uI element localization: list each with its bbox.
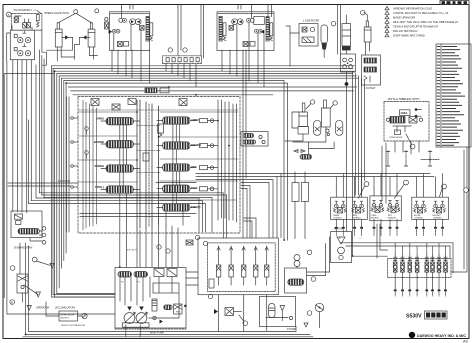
- title S530V: [406, 311, 447, 320]
- block internal crossing wires: [79, 100, 239, 230]
- svg-text:SELECTOR PRESS SW: SELECTOR PRESS SW: [61, 325, 86, 327]
- spool OPT: [157, 164, 197, 171]
- warning note 6: [385, 29, 417, 33]
- swing reducing valves: [186, 235, 208, 245]
- svg-text:TEXW A MOTOR UPTM TEXHWH AT: TEXW A MOTOR UPTM TEXHWH AT: [393, 25, 439, 29]
- svg-text:1 OUTLET: 1 OUTLET: [364, 87, 376, 90]
- svg-text:OPERATOR: OPERATOR: [36, 307, 49, 310]
- lever group 1: [331, 197, 368, 219]
- svg-text:OPT: OPT: [191, 165, 197, 169]
- travel crossover lines: [80, 214, 196, 254]
- dozer cylinder: [364, 13, 371, 55]
- svg-text:PAN AD TEXTWH D: PAN AD TEXTWH D: [393, 29, 417, 33]
- svg-text:PEDAL(L): PEDAL(L): [371, 217, 379, 220]
- main pump block: [115, 268, 186, 329]
- solenoid valve SOL6: [431, 255, 435, 278]
- junction manifold rects: [292, 172, 309, 239]
- check valve block: [286, 20, 319, 67]
- svg-text:WORK MODE: WORK MODE: [60, 314, 75, 316]
- warning note 4: [385, 20, 459, 24]
- pilot elbow bundle to manifold: [29, 60, 227, 238]
- drain port dot: [345, 72, 349, 86]
- pump P2: [136, 307, 147, 324]
- straight travel valve box: [285, 250, 316, 293]
- travel block drop wires: [112, 50, 264, 87]
- svg-text:TH/BH: TH/BH: [333, 215, 340, 217]
- solenoid bank box: [388, 259, 452, 278]
- warning note 7: [385, 33, 425, 37]
- svg-text:S530V: S530V: [406, 314, 422, 320]
- svg-text:ARROWS INFORMATION CLVD: ARROWS INFORMATION CLVD: [393, 7, 432, 11]
- gauge with needle bottom left: [32, 257, 54, 268]
- svg-text:BOOM: BOOM: [414, 215, 420, 217]
- travel motor block L: [105, 5, 153, 51]
- svg-text:VIA STRATEGY - 1: VIA STRATEGY - 1: [14, 8, 37, 12]
- solenoid valve SOL4: [415, 255, 419, 278]
- svg-text:MADE UPWH DIR: MADE UPWH DIR: [393, 16, 415, 20]
- right margin wire: [451, 147, 468, 272]
- svg-text:DAEWOO HEAVY IND. & M/C: DAEWOO HEAVY IND. & M/C: [417, 334, 466, 338]
- svg-text:P PUMP: P PUMP: [287, 328, 297, 331]
- svg-text:OPEN MODE: OPEN MODE: [389, 137, 403, 139]
- solenoid valve SOL5: [425, 255, 429, 278]
- RCV outline step (right side): [7, 30, 47, 65]
- cylinder piping: [47, 37, 98, 61]
- balloon lever1: [364, 182, 369, 187]
- pump P1: [124, 307, 135, 324]
- spool ARM1: [96, 117, 139, 125]
- spool TRVL: [95, 185, 140, 193]
- warning note 2: [385, 11, 449, 15]
- lever group 3: [412, 197, 449, 219]
- svg-text:1 LINE FILTER: 1 LINE FILTER: [303, 20, 319, 23]
- svg-text:OPERA VALVE PATH: OPERA VALVE PATH: [44, 11, 69, 15]
- relief unit 4: [254, 246, 258, 285]
- svg-text:90 BRAKE VTRW: 90 BRAKE VTRW: [14, 247, 33, 250]
- svg-text:BUCKET: BUCKET: [433, 215, 442, 217]
- bypass valve box: [341, 54, 356, 72]
- balloon lever3: [442, 184, 447, 189]
- option box stubs: [382, 141, 419, 203]
- balloon 9: [331, 21, 336, 26]
- travel pilot valve small: [214, 308, 248, 326]
- center gallery lines: [120, 100, 183, 230]
- warning note 1: [385, 6, 432, 10]
- travel motor block R: [217, 5, 274, 51]
- remote control valve RCV body: [10, 25, 34, 60]
- svg-text:T900: T900: [191, 186, 198, 190]
- balloon A: [6, 12, 11, 17]
- relief unit 2: [229, 246, 233, 285]
- pump yoke: [115, 323, 186, 329]
- balloon: [361, 10, 366, 15]
- svg-text:LEVER(L): LEVER(L): [353, 218, 361, 220]
- relief manifold block: [198, 238, 278, 295]
- wire elbows left of bundle: [52, 66, 116, 297]
- solenoid valve SOL3: [408, 255, 412, 278]
- option box: [384, 97, 429, 149]
- svg-text:PVD: PVD: [176, 312, 181, 314]
- maker logo: [409, 332, 467, 338]
- svg-text:SWG: SWG: [372, 215, 377, 217]
- relief unit 3: [242, 246, 246, 285]
- solenoid valve SOL7: [437, 255, 441, 278]
- cooler fan motor: [331, 228, 352, 263]
- solenoid valve SOL2: [401, 255, 405, 278]
- svg-text:ARM1: ARM1: [96, 117, 104, 121]
- center joint connector strip: [163, 48, 202, 64]
- gear pump: [307, 237, 330, 328]
- svg-text:WHL DIST THE 10mm DIRG UH THE: WHL DIST THE 10mm DIRG UH THE OBETWHHE A…: [393, 20, 459, 24]
- svg-text:SWITCH: SWITCH: [60, 318, 69, 320]
- svg-text:SWING: SWING: [95, 164, 104, 168]
- work mode switch box: [46, 302, 87, 327]
- svg-text:MAIN PUMP: MAIN PUMP: [150, 332, 165, 335]
- right bus drop wires: [353, 71, 388, 258]
- title number strip top right: [440, 1, 469, 5]
- aux valve mini block: [241, 132, 268, 147]
- svg-text:A: A: [8, 13, 10, 17]
- svg-text:100A: 100A: [400, 111, 408, 115]
- svg-text:(ACCUMULATOR): (ACCUMULATOR): [55, 307, 75, 310]
- spool BOOM1: [157, 142, 202, 149]
- parts list table: [436, 44, 471, 147]
- svg-text:TRV(R): TRV(R): [191, 205, 200, 209]
- return filter column: [342, 15, 351, 54]
- svg-text:ROTA & NIBBLER OPTN: ROTA & NIBBLER OPTN: [388, 97, 419, 101]
- balloon lever2: [404, 180, 409, 185]
- accumulator / shutoff group: [10, 266, 75, 310]
- balloon above cylinders: [58, 10, 91, 23]
- svg-text:CONTRL MAX DIST AT MECH MECH T: CONTRL MAX DIST AT MECH MECH TA + 10: [393, 11, 449, 15]
- pilot shuttle box (dashed): [11, 14, 42, 31]
- relief unit 1: [216, 246, 220, 285]
- right collector wires: [277, 174, 453, 273]
- warning note 3: [385, 15, 415, 19]
- block left port stubs: [8, 97, 78, 232]
- solenoid valve SOL8: [444, 255, 448, 278]
- svg-text:B: B: [11, 300, 13, 304]
- travel motor long drops: [243, 50, 246, 238]
- svg-text:BOOM2: BOOM2: [94, 140, 105, 144]
- check valve right (filled): [80, 35, 90, 39]
- accumulator charge cluster: [285, 86, 347, 231]
- regulators and internal piping: [120, 277, 187, 335]
- brake valve block: [11, 211, 46, 250]
- wire bundle horizontal: [52, 66, 359, 240]
- lever group 2: [370, 196, 401, 221]
- solenoid drop wires: [394, 278, 447, 296]
- svg-text:ATM: ATM: [353, 214, 357, 217]
- pilot pump unit: [260, 297, 312, 332]
- svg-text:LEVER(L): LEVER(L): [334, 218, 342, 220]
- main control valve boundary: [78, 97, 240, 234]
- top risers to border: [130, 5, 341, 58]
- lever drop wires: [335, 219, 444, 235]
- load check valves right column: [200, 100, 237, 222]
- relief unit 5: [265, 246, 269, 285]
- svg-text:LEVER(R): LEVER(R): [415, 218, 424, 220]
- pilot lines leaving RCV bottom: [13, 60, 27, 213]
- boom cylinder right: [88, 23, 95, 47]
- pump to manifold links: [20, 243, 198, 337]
- spool TRVR: [157, 204, 200, 211]
- spool ARM2: [157, 117, 199, 124]
- sheet size label A3: [463, 339, 469, 343]
- port cross marks: [386, 151, 439, 168]
- accumulator tall: [321, 25, 327, 58]
- svg-text:LEVER(R): LEVER(R): [433, 218, 442, 220]
- spool SWING: [95, 164, 140, 172]
- left margin risers: [4, 50, 115, 314]
- center risers below main block: [120, 219, 178, 267]
- spool BOOM2: [94, 140, 140, 148]
- svg-text:S.P OIL P: S.P OIL P: [127, 250, 137, 252]
- label: pilot piping note: [14, 8, 70, 15]
- svg-text:ARM2: ARM2: [191, 118, 199, 122]
- svg-text:P4 A16 MU: P4 A16 MU: [58, 180, 70, 183]
- solenoid valve SOL1: [393, 255, 397, 278]
- svg-text:DOEF MARK ARCTURND: DOEF MARK ARCTURND: [393, 34, 425, 38]
- warning note 5: [385, 24, 439, 28]
- svg-text:PEDAL(R): PEDAL(R): [388, 217, 397, 220]
- balloon right of cylinders: [95, 9, 99, 13]
- bottom return bus: [23, 243, 313, 337]
- boom cylinder left: [55, 23, 62, 47]
- manifold small valve: [208, 279, 266, 332]
- wire elbow bundle center: [156, 174, 281, 239]
- spool T900: [157, 185, 198, 192]
- svg-text:A3: A3: [463, 339, 469, 343]
- check valve left (filled): [62, 35, 73, 39]
- solenoid units: [393, 255, 447, 278]
- relief valves on top of block: [91, 88, 187, 110]
- dozer control valve block: [362, 55, 381, 90]
